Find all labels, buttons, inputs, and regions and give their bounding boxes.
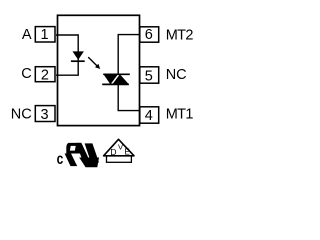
svg-text:NC: NC xyxy=(166,67,187,83)
svg-text:C: C xyxy=(21,66,31,82)
LED D1 triangle xyxy=(73,51,84,60)
pin 3 box xyxy=(35,106,55,122)
svg-text:NC: NC xyxy=(11,107,32,123)
svg-text:MT1: MT1 xyxy=(166,106,194,122)
triac Q1 right triangle xyxy=(112,74,129,84)
light emission arrow xyxy=(88,57,97,66)
pin 2 box xyxy=(35,67,55,82)
UL recognized component mark: U bottom xyxy=(79,158,99,168)
UL recognized component mark: mirrored R bowl xyxy=(66,143,81,154)
pin 1 box xyxy=(35,27,55,42)
pin 6 box xyxy=(140,27,159,42)
pin 4 box xyxy=(140,107,159,123)
wire triac to pin4 MT1 xyxy=(118,84,140,110)
svg-text:6: 6 xyxy=(145,27,153,43)
svg-text:E: E xyxy=(124,147,129,156)
triac Q1 left triangle xyxy=(104,74,119,84)
svg-text:c: c xyxy=(57,150,64,168)
wire pin6 MT2 to triac xyxy=(118,35,140,75)
UL recognized component mark: mirrored R leg xyxy=(65,154,78,167)
svg-text:A: A xyxy=(22,27,32,43)
UL recognized component mark: U left arm xyxy=(76,143,90,163)
svg-text:4: 4 xyxy=(145,108,153,124)
VDE pedestal xyxy=(107,156,132,163)
triac Q1 top bar xyxy=(103,73,130,75)
IC body U1 (DIP-6 package outline) xyxy=(58,15,140,125)
triac Q1 bottom bar xyxy=(102,83,129,85)
UL recognized component mark: U right arm xyxy=(85,143,99,162)
LED D1 cathode bar xyxy=(71,60,85,62)
svg-text:D: D xyxy=(110,147,116,157)
VDE triangle mark outline xyxy=(104,139,134,156)
svg-text:5: 5 xyxy=(145,68,153,84)
svg-text:3: 3 xyxy=(41,107,49,123)
wire pin1 anode to LED and down to pin2 cathode xyxy=(56,35,78,75)
svg-text:1: 1 xyxy=(41,27,49,43)
svg-text:2: 2 xyxy=(41,67,49,83)
svg-text:MT2: MT2 xyxy=(166,28,194,44)
pin 5 box xyxy=(140,67,159,83)
